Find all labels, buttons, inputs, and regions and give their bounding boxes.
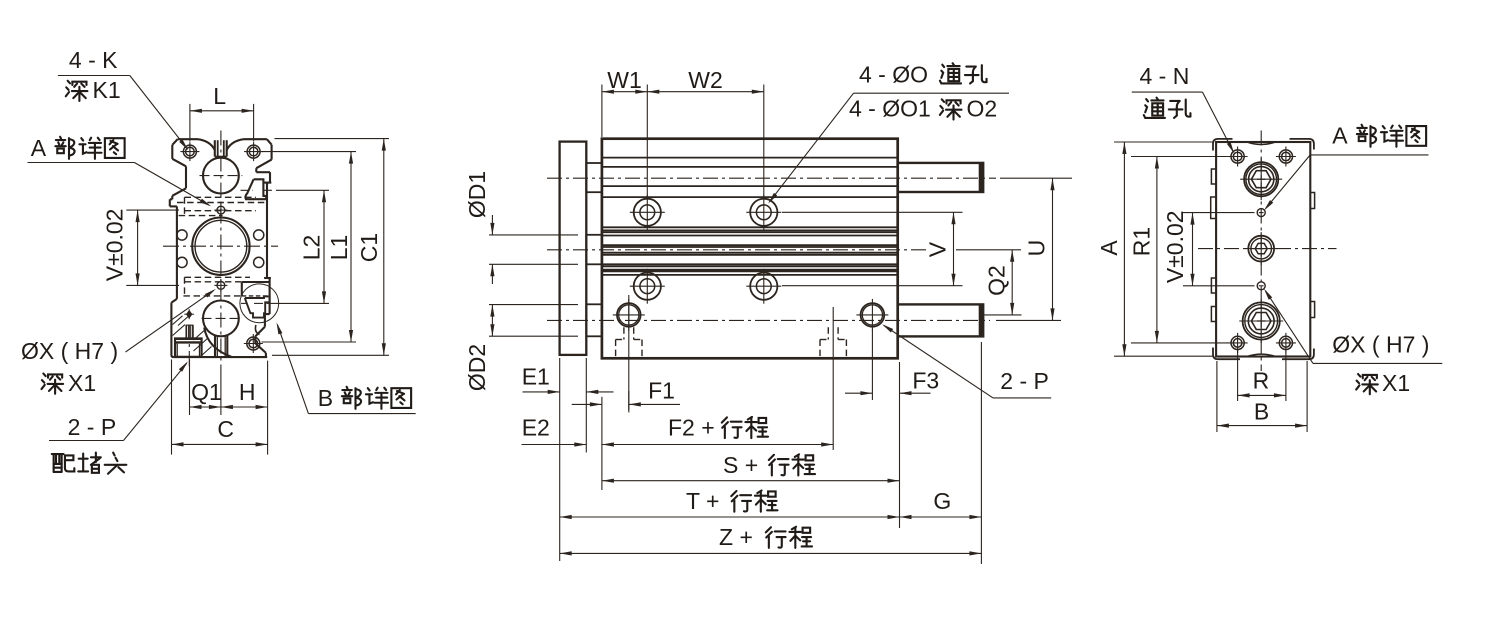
dimension U [996,178,1072,320]
svg-text:ØX ( H7 ): ØX ( H7 ) [21,338,118,364]
svg-text:L2: L2 [299,235,325,261]
svg-text:R1: R1 [1129,227,1155,256]
dimension A [1096,142,1214,356]
dimension V right view [1162,210,1255,285]
body stripes top group [602,158,898,198]
svg-text:F1: F1 [648,377,675,403]
svg-text:R: R [1253,368,1270,394]
dimension L2 [277,190,330,303]
svg-text:ØD2: ØD2 [464,344,490,391]
label 2-P plug with leader [49,361,188,474]
left view bottom guide circle [202,301,242,337]
dimension OD2 [464,305,578,392]
rear body corners [1213,139,1314,359]
svg-text:L: L [213,83,226,109]
label B detail with leader [277,322,416,413]
dimension R1 [1129,157,1228,343]
svg-text:T +: T + [686,488,719,514]
svg-text:Z +: Z + [719,524,753,550]
svg-text:Q2: Q2 [984,265,1010,296]
right view detail hole A [1257,209,1265,217]
left view body outline [170,139,272,357]
svg-text:B: B [1254,399,1269,425]
centerline bottom rod [547,319,990,321]
svg-text:E1: E1 [522,363,550,389]
dimension V plus-minus left view [102,209,180,286]
counterbore hole bottom-left [630,269,665,304]
svg-text:X1: X1 [68,370,96,396]
dimension C1 [272,139,389,356]
counterbore hole top-right 4-O [746,195,781,230]
svg-text:4 - K: 4 - K [69,47,118,73]
right view screw top-right [1276,147,1296,167]
dimension Q2 [956,250,1022,315]
bottom piston rod [898,304,984,336]
label A detail right view with leader [1264,123,1429,211]
flange plate [560,142,587,355]
svg-text:G: G [933,488,951,514]
svg-text:S +: S + [723,452,758,478]
dimension W1 W2 [602,67,764,198]
svg-text:K1: K1 [93,77,121,103]
svg-text:A: A [31,135,47,161]
svg-text:2 - P: 2 - P [68,414,117,440]
right view detail hole X [1257,282,1265,290]
svg-text:O2: O2 [967,96,998,122]
label A detail left view with leader [28,135,212,207]
cylinder body [602,139,898,359]
dimension OD1 [464,171,578,284]
detail hole A [214,204,227,217]
label OX right view with leader [1264,289,1442,397]
top piston rod [898,163,984,192]
svg-text:A: A [1332,123,1348,149]
dimension G [900,342,982,564]
svg-text:ØD1: ØD1 [464,171,490,218]
dimension C [172,360,268,455]
label 4-K with leader [58,47,188,150]
dimension R [1238,350,1286,401]
rod stubs in gap [586,163,602,336]
body stripes middle group [602,227,898,275]
svg-text:Q1: Q1 [191,379,222,405]
detail hole B [214,279,227,292]
screw hole bottom-right [244,334,263,353]
bottom rod end [1239,299,1283,343]
right view screw bottom-right [1276,333,1296,353]
top rod end [1240,158,1282,200]
dimension V middle view [782,212,963,285]
svg-text:V±0.02: V±0.02 [102,209,128,282]
port hole right 2-P [856,299,888,331]
svg-text:W1: W1 [607,67,642,93]
side port holes [177,230,264,268]
right view horizontal centerline [1198,248,1337,250]
dimension L [190,83,254,142]
left edge tabs [1211,169,1216,322]
dimension S stroke [602,452,900,483]
left view hidden lines lower band [183,277,250,296]
label 4-N with leader [1132,63,1234,154]
balloon circle B [240,284,279,323]
dimension F3 [845,330,939,528]
end plate [1216,142,1310,357]
left view vertical centerline [220,131,222,372]
svg-text:B: B [318,385,333,411]
dimension E2 [522,415,587,447]
svg-text:4 - N: 4 - N [1140,63,1190,89]
right view vertical centerline [1260,131,1262,372]
left view hidden lines upper band [177,197,267,215]
svg-text:C1: C1 [356,233,382,262]
svg-text:ØX ( H7 ): ØX ( H7 ) [1332,332,1429,358]
left view top guide circle [200,158,243,194]
counterbore hole bottom-right [746,269,781,304]
dimension Q1 [189,325,222,415]
label OX H7 left view with leader [21,289,216,396]
svg-text:C: C [217,416,234,442]
svg-text:U: U [1024,240,1050,257]
dimension B [1217,361,1307,432]
hidden plug left [616,295,642,410]
left view top slot [215,140,227,156]
screw hole top-left 4-K [180,142,199,161]
dimension L1 [262,152,357,342]
middle rod end [1245,232,1278,265]
screw hole top-right [244,142,263,161]
svg-text:E2: E2 [522,415,550,441]
svg-text:W2: W2 [688,67,723,93]
svg-text:4 - ØO1: 4 - ØO1 [849,96,931,122]
left view bore circles [163,218,278,275]
svg-text:4 - ØO: 4 - ØO [859,61,928,87]
dimension E1 [522,358,614,561]
dimension H [221,361,268,455]
svg-text:A: A [1096,240,1122,256]
svg-text:2 - P: 2 - P [1000,368,1049,394]
centerline piston [547,249,929,251]
svg-text:F2 +: F2 + [668,414,715,440]
left view upper-right stepped feature [241,179,278,199]
bottom rod slot [215,336,227,358]
centerline top rod [547,177,996,179]
counterbore hole top-left [630,195,665,230]
right edge tabs [1310,193,1314,318]
port hole left 2-P [613,299,645,331]
svg-text:X1: X1 [1382,370,1410,396]
svg-text:V±0.02: V±0.02 [1162,210,1188,283]
label 2-P right with leader [882,324,1051,398]
plug 2-P [175,325,202,357]
svg-text:L1: L1 [326,235,352,261]
right view screw bottom-left [1228,333,1248,353]
right view screw top-left 4-N [1228,147,1248,167]
dimension F2 stroke [602,414,833,446]
label 4-O holes with leader [768,61,1009,203]
dimension T stroke [560,488,900,519]
rod boss arc and hatching [173,314,232,357]
dimension F1 [572,377,680,490]
hidden plug right [820,307,846,450]
svg-text:V: V [925,241,951,257]
left view B-detail stepped feature [241,282,277,335]
dimension Z stroke [560,524,982,555]
star marker [184,309,194,319]
svg-text:F3: F3 [912,367,939,393]
svg-text:H: H [239,379,256,405]
